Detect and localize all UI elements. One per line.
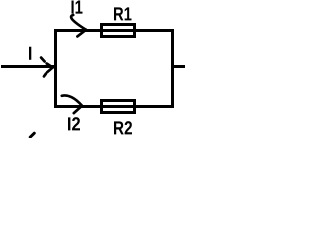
label I1 (72, 1, 83, 14)
top wire (54, 29, 174, 32)
input wire (1, 65, 57, 68)
current arrow I (41, 58, 53, 77)
label R2 (114, 121, 132, 134)
current arrow I1 (71, 15, 86, 36)
label I (29, 47, 31, 60)
current arrow I2 (62, 95, 82, 113)
left vertical wire (54, 29, 57, 108)
resistor R2 (102, 101, 135, 113)
bottom wire (54, 105, 174, 108)
label R1 (114, 7, 132, 20)
resistor R1 (102, 25, 135, 37)
label I2 (68, 117, 80, 130)
clipped arrow tail bottom-left (30, 133, 34, 137)
right vertical wire (171, 29, 174, 108)
output wire (171, 65, 185, 68)
